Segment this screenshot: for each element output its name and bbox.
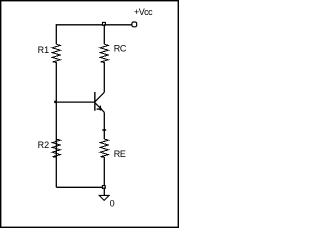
transistor Q1 base bar [94,92,96,111]
resistor R2 [52,139,60,157]
wire: bottom rail [56,186,104,188]
wire: base lead from left rail to Q1 [56,101,95,103]
svg-text:RE: RE [114,149,126,159]
wire: left rail middle segment (R1 to bottom corner, passes base junction) [55,62,57,187]
wire: collector lead vertical (RC to transistor) [103,62,105,92]
wire: RC branch top lead (top rail to RC) [103,24,105,44]
transistor Q1 emitter arrow [97,108,102,110]
resistor RE [100,139,108,157]
node: emitter pin tick [102,129,106,131]
wire: left rail upper segment (top corner down to R1) [55,24,57,44]
svg-text:R1: R1 [38,45,50,55]
node: junction square at top of RC branch [103,22,106,25]
wire: ground stem [103,187,105,195]
wire: top rail from left corner to +Vcc terminal [56,24,132,26]
node: bottom junction square [102,186,105,189]
power terminal +Vcc (open square pad) [132,22,137,27]
border frame [1,1,179,228]
svg-text:0: 0 [110,198,115,208]
wire: emitter lead vertical down to RE [103,112,105,139]
resistor R1 [52,44,60,62]
resistor RC [100,44,108,62]
svg-text:+Vcc: +Vcc [134,7,153,17]
svg-text:RC: RC [114,43,127,53]
node: base junction dot on left rail [54,101,56,103]
ground symbol (0 node triangle) [99,195,109,200]
wire: RE to bottom rail [103,157,105,187]
svg-text:R2: R2 [38,140,50,150]
transistor Q1 collector diagonal [95,92,104,102]
transistor Q1 emitter diagonal [95,103,104,113]
